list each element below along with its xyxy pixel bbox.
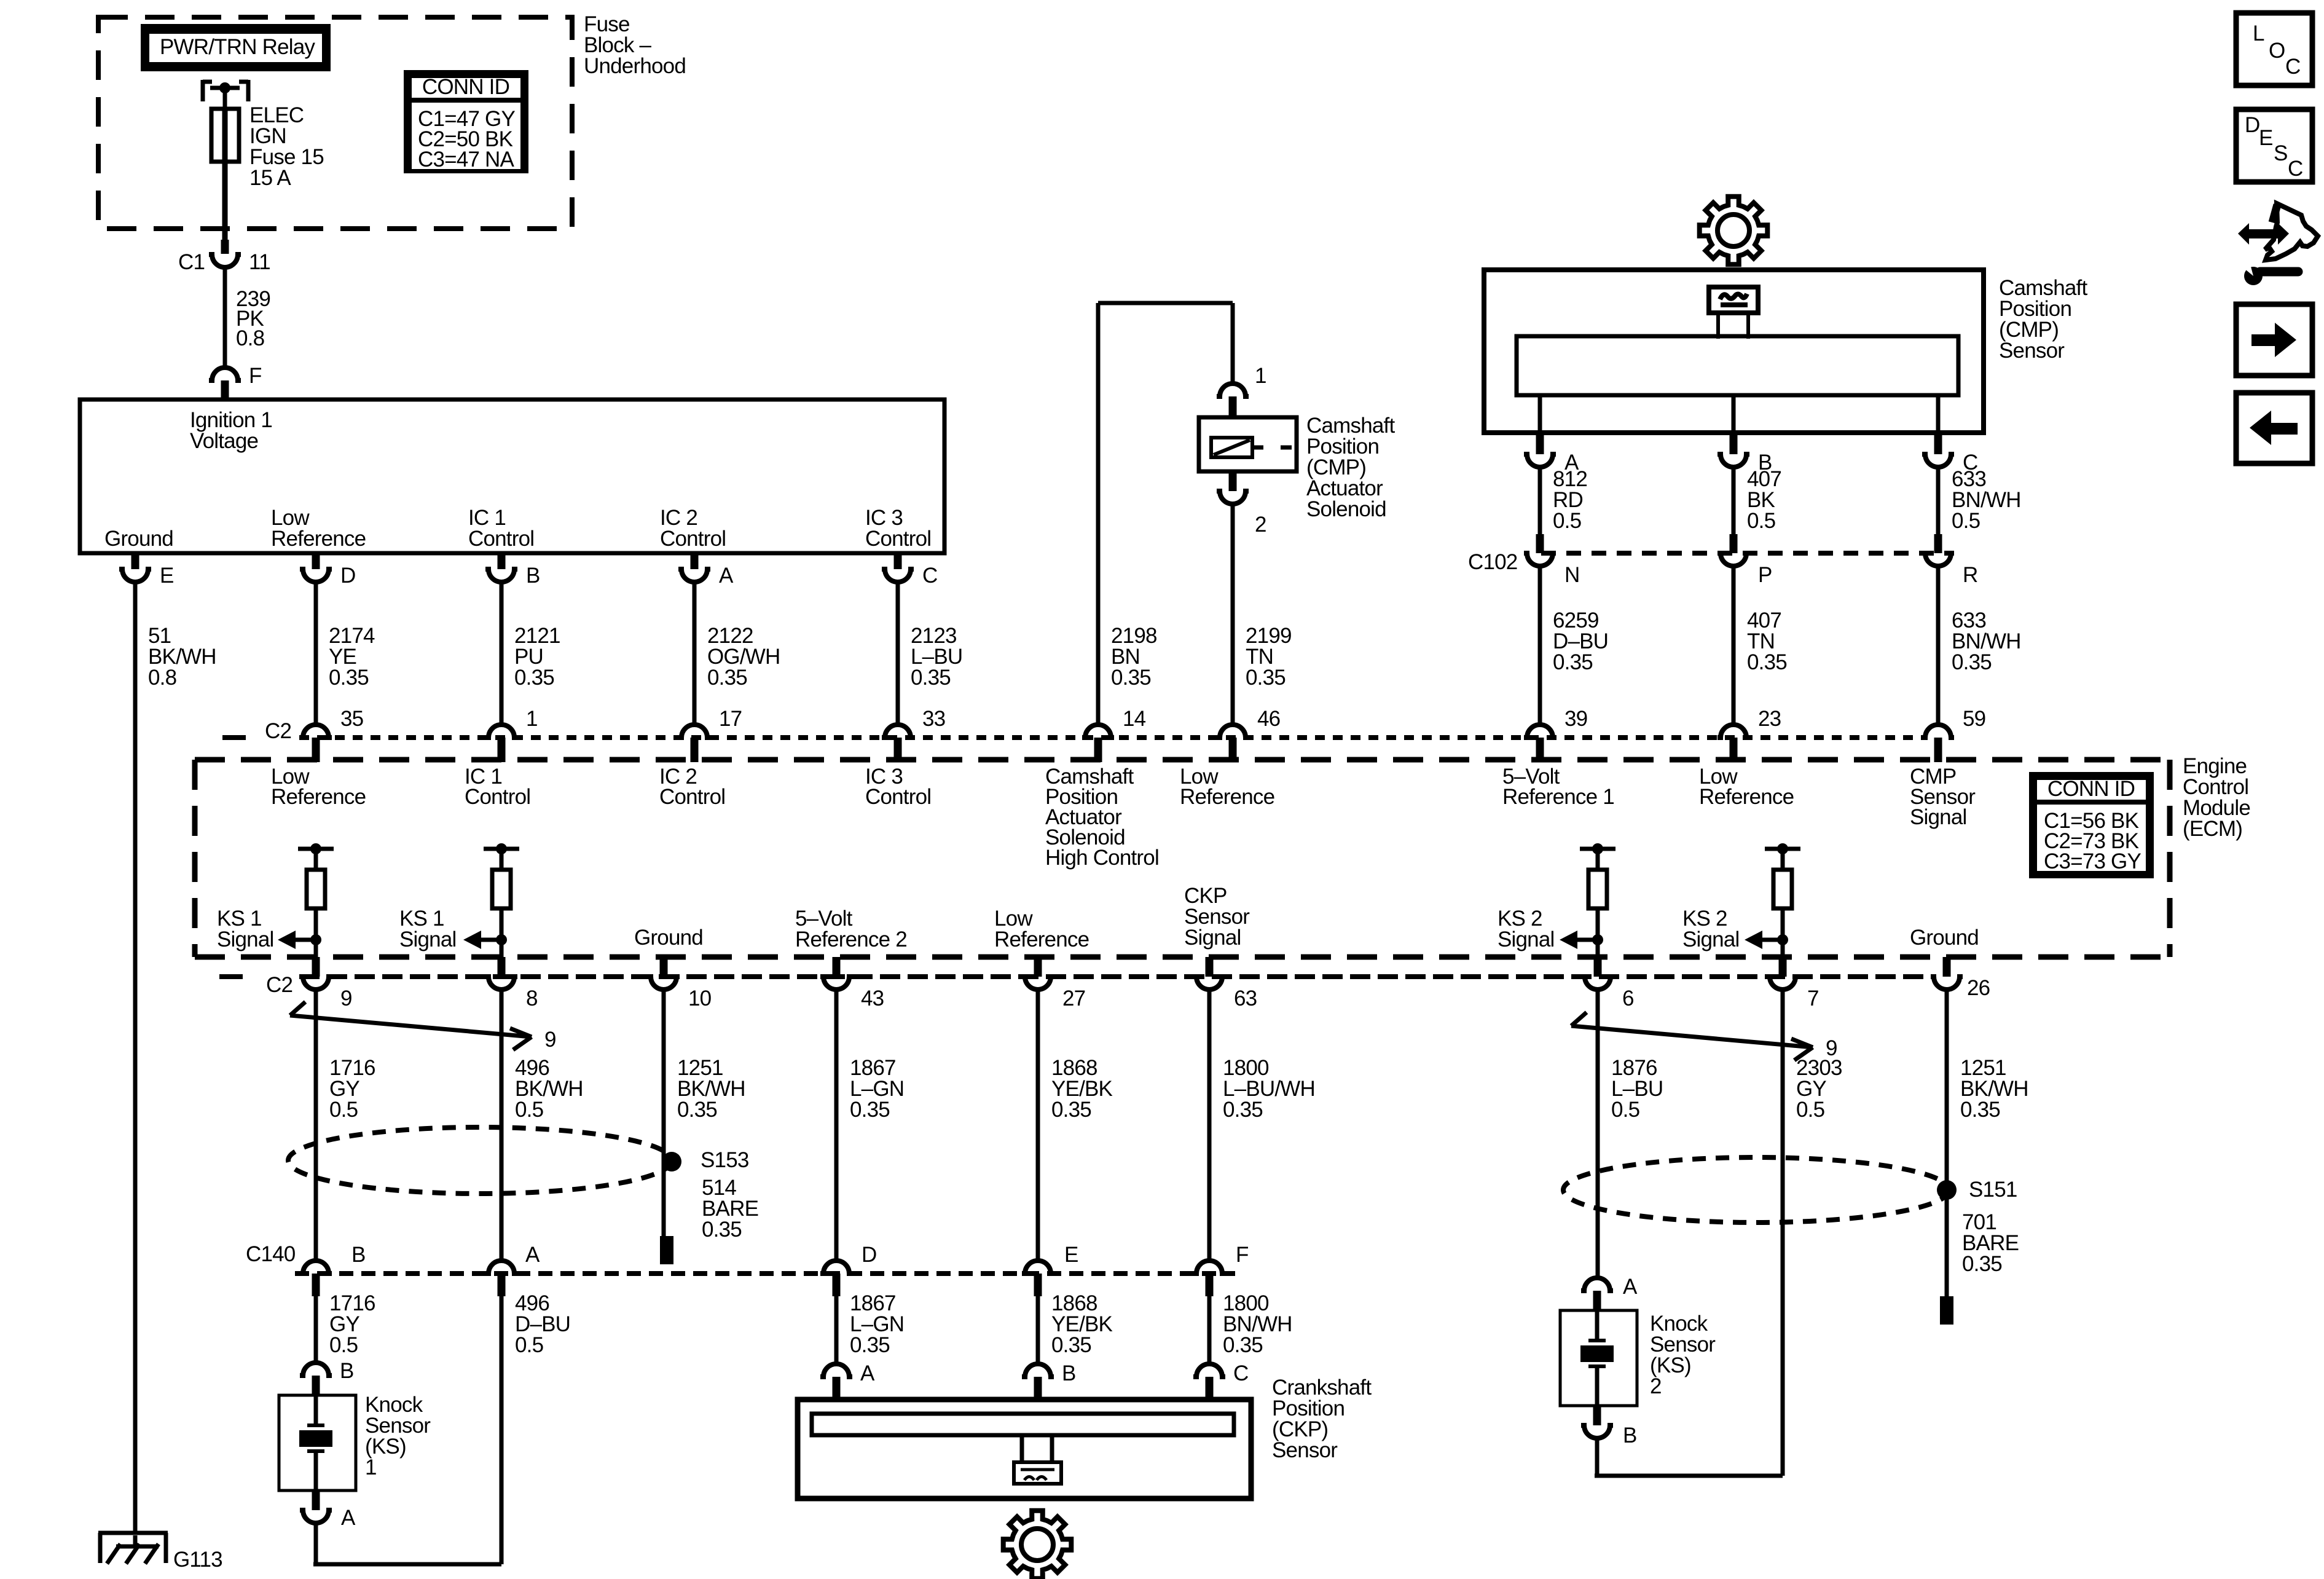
svg-text:15 A: 15 A	[249, 166, 291, 190]
svg-text:Solenoid: Solenoid	[1306, 497, 1386, 521]
svg-text:A: A	[525, 1243, 540, 1267]
svg-text:A: A	[341, 1506, 356, 1530]
svg-text:0.35: 0.35	[1246, 666, 1286, 690]
svg-text:High Control: High Control	[1045, 846, 1159, 870]
svg-text:Reference: Reference	[1699, 785, 1794, 809]
svg-text:Control: Control	[865, 785, 931, 809]
svg-text:Sensor: Sensor	[1272, 1438, 1338, 1462]
svg-text:Signal: Signal	[399, 927, 457, 951]
svg-text:E: E	[160, 564, 174, 588]
svg-text:0.35: 0.35	[702, 1218, 742, 1242]
svg-text:0.5: 0.5	[1553, 509, 1581, 533]
svg-text:10: 10	[688, 986, 712, 1010]
svg-text:0.35: 0.35	[850, 1333, 890, 1357]
svg-text:0.5: 0.5	[515, 1333, 543, 1357]
svg-text:S: S	[2274, 141, 2288, 165]
svg-text:39: 39	[1564, 707, 1587, 731]
svg-text:27: 27	[1062, 986, 1085, 1010]
svg-text:D: D	[2245, 113, 2259, 137]
svg-text:63: 63	[1234, 986, 1257, 1010]
svg-text:E: E	[1064, 1243, 1078, 1267]
svg-text:S153: S153	[701, 1148, 749, 1172]
svg-text:0.35: 0.35	[911, 666, 951, 690]
svg-text:0.8: 0.8	[236, 326, 264, 350]
svg-text:C: C	[922, 564, 937, 588]
svg-text:C3=47 NA: C3=47 NA	[418, 148, 515, 171]
svg-text:0.35: 0.35	[1051, 1333, 1091, 1357]
svg-text:0.35: 0.35	[1962, 1252, 2002, 1276]
svg-text:A: A	[719, 564, 734, 588]
svg-text:43: 43	[861, 986, 884, 1010]
svg-text:9: 9	[340, 986, 352, 1010]
svg-text:Control: Control	[468, 527, 534, 551]
svg-text:D: D	[862, 1243, 876, 1267]
svg-text:B: B	[526, 564, 540, 588]
svg-text:B: B	[1623, 1423, 1637, 1447]
svg-text:O: O	[2269, 39, 2285, 63]
svg-text:0.35: 0.35	[1223, 1333, 1263, 1357]
svg-text:Signal: Signal	[217, 927, 274, 951]
svg-text:Signal: Signal	[1682, 927, 1740, 951]
svg-text:46: 46	[1257, 707, 1280, 731]
svg-text:S151: S151	[1969, 1178, 2017, 1202]
svg-text:Reference: Reference	[1180, 785, 1274, 809]
svg-text:1: 1	[526, 707, 538, 731]
svg-text:C: C	[2288, 157, 2302, 181]
svg-text:Signal: Signal	[1184, 926, 1241, 950]
svg-text:0.35: 0.35	[1111, 666, 1151, 690]
svg-text:0.5: 0.5	[329, 1098, 358, 1122]
svg-text:7: 7	[1807, 986, 1819, 1010]
svg-text:B: B	[1062, 1361, 1076, 1385]
svg-text:C: C	[2285, 55, 2300, 79]
svg-text:R: R	[1963, 563, 1977, 587]
svg-text:0.35: 0.35	[1223, 1098, 1263, 1122]
svg-text:0.5: 0.5	[1747, 509, 1775, 533]
svg-text:1: 1	[365, 1455, 377, 1479]
svg-text:2: 2	[1255, 513, 1266, 537]
svg-text:0.5: 0.5	[515, 1098, 543, 1122]
svg-text:14: 14	[1123, 707, 1146, 731]
svg-text:C2: C2	[266, 973, 292, 997]
svg-text:P: P	[1758, 563, 1772, 587]
svg-text:A: A	[860, 1361, 875, 1385]
svg-text:F: F	[249, 364, 262, 388]
svg-text:Control: Control	[465, 785, 530, 809]
svg-text:F: F	[1236, 1243, 1249, 1267]
svg-text:0.35: 0.35	[514, 666, 554, 690]
svg-text:0.35: 0.35	[1051, 1098, 1091, 1122]
svg-text:Ground: Ground	[1910, 926, 1979, 950]
svg-text:D: D	[340, 564, 355, 588]
svg-text:0.5: 0.5	[329, 1333, 358, 1357]
svg-text:Control: Control	[865, 527, 931, 551]
svg-text:0.35: 0.35	[1747, 650, 1787, 674]
svg-text:0.35: 0.35	[329, 666, 369, 690]
svg-text:C102: C102	[1468, 550, 1517, 574]
svg-text:1: 1	[1255, 364, 1266, 388]
svg-text:59: 59	[1963, 707, 1985, 731]
svg-text:Reference 1: Reference 1	[1502, 785, 1614, 809]
svg-text:B: B	[351, 1243, 366, 1267]
svg-text:11: 11	[249, 250, 270, 274]
svg-text:9: 9	[544, 1028, 556, 1052]
svg-text:Control: Control	[660, 527, 726, 551]
svg-text:6: 6	[1622, 986, 1634, 1010]
svg-text:Signal: Signal	[1910, 805, 1967, 829]
svg-text:C2: C2	[265, 719, 291, 743]
svg-text:C3=73 GY: C3=73 GY	[2044, 849, 2141, 873]
svg-text:0.8: 0.8	[148, 666, 176, 690]
svg-text:Ground: Ground	[634, 926, 703, 950]
svg-text:33: 33	[922, 707, 945, 731]
svg-text:Control: Control	[659, 785, 725, 809]
svg-text:A: A	[1623, 1275, 1638, 1299]
svg-text:C: C	[1233, 1361, 1248, 1385]
svg-text:35: 35	[340, 707, 363, 731]
svg-text:C140: C140	[246, 1242, 296, 1266]
svg-text:Reference: Reference	[271, 527, 366, 551]
svg-text:0.5: 0.5	[1952, 509, 1980, 533]
svg-text:26: 26	[1967, 976, 1990, 1000]
svg-text:B: B	[340, 1359, 354, 1383]
svg-text:PWR/TRN Relay: PWR/TRN Relay	[160, 35, 315, 59]
svg-text:CONN ID: CONN ID	[2047, 777, 2135, 801]
svg-text:0.35: 0.35	[707, 666, 747, 690]
svg-text:Signal: Signal	[1498, 927, 1555, 951]
svg-text:0.35: 0.35	[1553, 650, 1593, 674]
svg-text:0.35: 0.35	[1960, 1098, 2000, 1122]
svg-text:G113: G113	[173, 1548, 222, 1572]
svg-text:CONN ID: CONN ID	[422, 75, 509, 99]
svg-text:N: N	[1564, 563, 1579, 587]
svg-text:Sensor: Sensor	[1999, 339, 2065, 363]
svg-text:17: 17	[719, 707, 742, 731]
svg-text:0.35: 0.35	[850, 1098, 890, 1122]
svg-text:8: 8	[526, 986, 538, 1010]
svg-text:L: L	[2253, 22, 2264, 45]
svg-text:2: 2	[1650, 1374, 1662, 1398]
svg-text:0.5: 0.5	[1611, 1098, 1639, 1122]
svg-text:Reference 2: Reference 2	[795, 927, 907, 951]
svg-text:Voltage: Voltage	[190, 429, 258, 453]
svg-text:C1: C1	[178, 250, 205, 274]
svg-text:23: 23	[1758, 707, 1781, 731]
svg-text:Reference: Reference	[994, 927, 1089, 951]
svg-text:0.35: 0.35	[1952, 650, 1992, 674]
svg-text:(ECM): (ECM)	[2183, 817, 2242, 841]
svg-text:Ground: Ground	[104, 527, 173, 551]
svg-text:0.5: 0.5	[1796, 1098, 1824, 1122]
svg-text:E: E	[2259, 126, 2273, 150]
svg-text:Reference: Reference	[271, 785, 366, 809]
svg-text:Underhood: Underhood	[584, 54, 686, 78]
svg-text:0.35: 0.35	[677, 1098, 717, 1122]
